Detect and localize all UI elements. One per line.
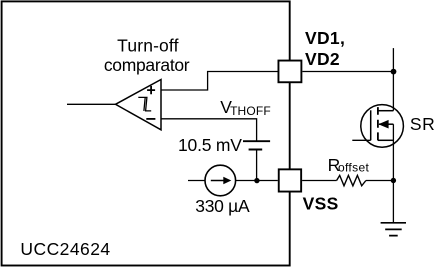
svg-text:10.5 mV: 10.5 mV [178, 135, 242, 155]
current source I1 circle [205, 165, 236, 196]
wire resistor to SR source node [366, 180, 394, 182]
junction dot SR source node [391, 178, 396, 183]
SR drain horizontal [378, 110, 394, 112]
resistor Roffset zigzag [337, 175, 366, 185]
svg-text:VD1,: VD1, [305, 28, 345, 48]
comparator U2 triangle [116, 80, 162, 130]
wire battery to VSS node [256, 150, 258, 181]
svg-text:SR: SR [410, 114, 434, 134]
junction dot VD node [391, 69, 397, 75]
SR gate bar [370, 110, 372, 140]
ground symbol [381, 223, 406, 236]
SR source vertical and source lead [392, 124, 394, 180]
svg-text:comparator: comparator [104, 55, 190, 75]
comparator minus input marker [146, 118, 155, 120]
transistor SR body circle [361, 105, 404, 148]
svg-text:UCC24624: UCC24624 [20, 239, 110, 259]
pin VSS [279, 169, 301, 191]
hysteresis symbol [138, 97, 151, 111]
current source I1 left stub [188, 180, 205, 182]
wire comparator minus input to battery [161, 119, 257, 141]
svg-text:330 µA: 330 µA [195, 196, 250, 216]
drain stub and drain lead [392, 48, 394, 111]
label VD1, VD2 [305, 28, 345, 69]
SR source horizontal [378, 139, 394, 141]
svg-text:VSS: VSS [303, 194, 339, 214]
SR body diode arrow [378, 120, 388, 129]
svg-text:VD2: VD2 [305, 49, 340, 69]
pin VD1/VD2 [278, 61, 301, 83]
SR body line [379, 123, 393, 125]
comparator plus input marker [147, 86, 155, 94]
IC boundary box U1 UCC24624 [2, 1, 290, 265]
junction dot VSS node [254, 178, 259, 183]
ground wire [392, 181, 394, 223]
label Turn-off comparator [104, 36, 190, 75]
SR channel segments [377, 107, 379, 140]
comparator output wire [67, 103, 116, 105]
wire current source to VSS pin [236, 180, 278, 182]
battery V1 VTHOFF plates [243, 141, 270, 149]
wire VSS pin to resistor [302, 180, 337, 182]
current source I1 arrow [211, 180, 224, 182]
svg-text:Turn-off: Turn-off [117, 36, 179, 56]
wire VD pin to drain node [302, 71, 393, 73]
wire comparator plus input to VD pin [161, 72, 278, 91]
SR gate lead [352, 139, 370, 141]
